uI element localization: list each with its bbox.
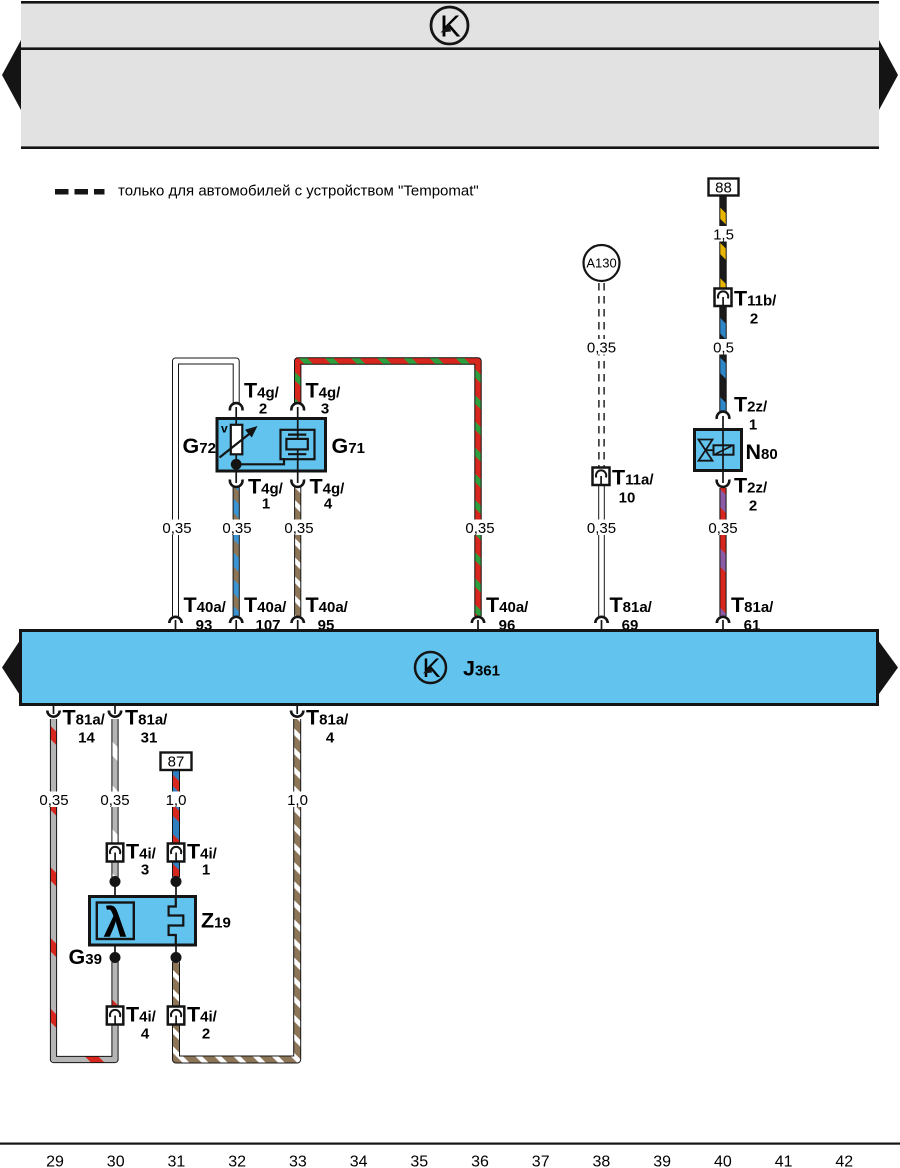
terminal T40a/95: [292, 617, 304, 623]
terminal T4g/4: [291, 480, 304, 487]
wire size label 1,0 track33: [283, 792, 311, 810]
svg-text:0,35: 0,35: [284, 520, 313, 537]
svg-text:41: 41: [775, 1154, 793, 1168]
svg-text:2: 2: [749, 498, 757, 515]
fuse box 88: [709, 179, 739, 197]
junction dot G72: [231, 459, 242, 470]
svg-text:T40a/: T40a/: [184, 593, 227, 617]
svg-text:34: 34: [350, 1154, 368, 1168]
svg-text:T2z/: T2z/: [734, 393, 768, 417]
wire brown/white T4g/4 to T40a/95: [294, 486, 301, 616]
terminal T81a/69: [595, 617, 607, 623]
svg-text:T4i/: T4i/: [187, 840, 218, 864]
svg-text:0,35: 0,35: [587, 340, 616, 357]
wire size label 0,35 track33: [281, 520, 317, 538]
terminal T2z/2: [717, 480, 730, 487]
label T4i/2: [187, 1003, 218, 1043]
svg-text:T4g/: T4g/: [244, 379, 280, 403]
terminal T2z/1: [717, 412, 730, 419]
svg-text:0,5: 0,5: [713, 340, 734, 357]
wire white loop T40a/93 to T4g/2: [176, 361, 237, 616]
svg-text:37: 37: [532, 1154, 550, 1168]
svg-text:T81a/: T81a/: [610, 593, 653, 617]
wire black/yellow 88 to T11b/2: [719, 196, 726, 290]
svg-text:4: 4: [141, 1026, 150, 1043]
label T81a/31: [125, 706, 168, 747]
wire G72 to G71 internal: [236, 458, 284, 464]
svg-text:T11a/: T11a/: [612, 466, 654, 490]
lambda symbol square: [97, 899, 134, 946]
lambda probe Z19 box: [90, 897, 196, 946]
svg-text:K: K: [440, 9, 461, 44]
svg-text:T81a/: T81a/: [63, 706, 106, 730]
svg-text:T4g/: T4g/: [306, 379, 342, 403]
svg-text:T81a/: T81a/: [306, 706, 349, 730]
svg-text:2: 2: [202, 1026, 210, 1043]
wire gray/white T81a/31 to T4i/3: [111, 719, 118, 877]
svg-text:K: K: [423, 653, 441, 683]
terminal T4g/2: [230, 403, 243, 410]
header K symbol: [431, 7, 468, 44]
svg-text:42: 42: [835, 1154, 853, 1168]
pin line into Z19 left: [114, 882, 116, 904]
connector T4i/4: [107, 1007, 124, 1025]
svg-text:Z19: Z19: [201, 909, 231, 933]
svg-text:1,0: 1,0: [166, 792, 187, 809]
connector T11b/2: [715, 289, 732, 307]
legend dashed-line symbol: [55, 189, 105, 195]
bus bar J361: [21, 631, 878, 705]
pin line into Z19 right: [175, 882, 177, 899]
bus right arrow: [878, 640, 899, 697]
wire size label 0,35 track40: [705, 520, 741, 538]
header right arrow: [879, 40, 898, 110]
label T40a/93: [184, 593, 227, 634]
wire size label 0,35 on A130 wire: [584, 339, 620, 357]
terminal T4g/1: [230, 480, 243, 487]
svg-text:1: 1: [262, 496, 270, 513]
label T40a/95: [306, 593, 349, 634]
svg-text:0,35: 0,35: [162, 520, 191, 537]
svg-text:3: 3: [321, 401, 329, 418]
svg-text:87: 87: [168, 754, 185, 771]
connector T4i/2: [168, 1007, 185, 1025]
svg-text:1,0: 1,0: [287, 792, 308, 809]
terminal T4g/3: [291, 403, 304, 410]
label T2z/2: [734, 474, 768, 515]
svg-text:0,35: 0,35: [708, 520, 737, 537]
svg-text:38: 38: [593, 1154, 611, 1168]
wire size label 0,35 track29: [36, 792, 72, 810]
header left arrow: [2, 40, 21, 110]
svg-text:G72: G72: [183, 434, 216, 458]
label T81a/4: [306, 706, 349, 747]
svg-text:4: 4: [324, 496, 333, 513]
label T40a/107: [244, 593, 287, 634]
label T4g/1: [248, 475, 284, 513]
svg-text:4: 4: [326, 730, 335, 747]
terminal T40a/96: [472, 617, 484, 623]
svg-text:G71: G71: [332, 434, 365, 458]
label T11a/10: [612, 466, 654, 507]
terminal T40a/93: [169, 617, 181, 623]
label T4g/4: [310, 475, 346, 513]
svg-text:N80: N80: [746, 440, 778, 464]
wire brown/white T81a/4 loop to T4i/2: [176, 719, 297, 1060]
wire size label 0,35 track36: [462, 520, 498, 538]
svg-text:v: v: [221, 422, 228, 436]
component A130 circle: [584, 245, 620, 281]
svg-text:T4i/: T4i/: [126, 1003, 157, 1027]
wire red/violet T2z/2 to T81a/61: [719, 488, 726, 616]
wire gray/red T81a/14 loop to T4i/4: [54, 719, 116, 1060]
svg-text:T81a/: T81a/: [125, 706, 168, 730]
svg-text:T40a/: T40a/: [244, 593, 287, 617]
svg-text:1: 1: [749, 417, 757, 434]
terminal T81a/31: [109, 711, 121, 717]
wire size label 0,35 track32: [219, 520, 255, 538]
svg-text:λ: λ: [104, 899, 127, 946]
sender G71 symbol: [281, 420, 315, 470]
svg-text:35: 35: [410, 1154, 428, 1168]
junction dot below Z19 right: [171, 952, 182, 963]
svg-text:A130: A130: [586, 256, 616, 271]
label T2z/1: [734, 393, 768, 434]
pin line below Z19 left: [114, 945, 116, 958]
svg-text:29: 29: [46, 1154, 64, 1168]
wire size label 0,35 track38: [584, 520, 620, 538]
svg-text:40: 40: [714, 1154, 732, 1168]
terminal T81a/61: [717, 617, 729, 623]
junction dot above Z19 right: [171, 876, 182, 887]
pin line below Z19 right: [175, 945, 177, 958]
svg-text:T2z/: T2z/: [734, 474, 768, 498]
wire blue/brown T4g/1 to T40a/107: [233, 486, 240, 616]
svg-text:3: 3: [141, 862, 149, 879]
svg-text:T4i/: T4i/: [126, 840, 157, 864]
wire size label 0,5: [709, 339, 738, 357]
svg-text:T81a/: T81a/: [731, 593, 774, 617]
heater meander Z19: [169, 897, 184, 945]
label T4g/2: [244, 379, 280, 418]
label T4i/3: [126, 840, 157, 879]
junction dot above Z19 left: [110, 876, 121, 887]
connector T4i/1: [168, 844, 185, 862]
svg-text:T4i/: T4i/: [187, 1003, 218, 1027]
svg-text:31: 31: [141, 730, 158, 747]
wire dashed white below A130: [599, 283, 604, 467]
svg-text:G39: G39: [69, 945, 102, 969]
valve N80: [695, 430, 742, 471]
label T11b/2: [734, 287, 777, 328]
svg-text:0,35: 0,35: [39, 792, 68, 809]
sender G72 symbol: [220, 420, 258, 464]
svg-text:2: 2: [750, 311, 758, 328]
svg-text:0,35: 0,35: [465, 520, 494, 537]
svg-text:14: 14: [78, 730, 95, 747]
svg-text:0,35: 0,35: [100, 792, 129, 809]
wire size label 0,35 track30: [97, 792, 133, 810]
svg-text:36: 36: [471, 1154, 489, 1168]
sensor box G72 G71: [217, 419, 326, 472]
wire size label 0,35 white loop: [159, 520, 195, 538]
label T4i/1: [187, 840, 218, 879]
terminal T81a/4: [291, 711, 303, 717]
svg-text:0,35: 0,35: [587, 520, 616, 537]
label T4g/3: [306, 379, 342, 418]
label T81a/69: [610, 593, 653, 634]
label T81a/14: [63, 706, 106, 747]
bus K symbol: [415, 652, 446, 683]
svg-text:10: 10: [619, 490, 636, 507]
bottom scale numbers: [46, 1154, 853, 1168]
wire size label 1,5: [709, 226, 738, 244]
wire blue/red 87 to T4i/1: [172, 771, 180, 878]
svg-text:33: 33: [289, 1154, 307, 1168]
label T4i/4: [126, 1003, 157, 1043]
svg-text:0,35: 0,35: [222, 520, 251, 537]
bus left arrow: [2, 640, 21, 697]
terminal T40a/107: [230, 617, 242, 623]
junction dot below Z19 left: [110, 952, 121, 963]
wire red/green T4g/3 to T40a/96: [298, 361, 478, 616]
connector T4i/3: [107, 844, 124, 862]
svg-text:88: 88: [715, 180, 732, 197]
header band background: [21, 1, 879, 149]
bottom scale line: [0, 1143, 900, 1145]
wire black/blue T11b/2 to T2z/1: [719, 306, 726, 412]
fuse box 87: [161, 753, 192, 771]
wire white T11a/10 to T81a/69: [598, 486, 605, 617]
terminal T81a/14: [47, 711, 59, 717]
svg-text:30: 30: [107, 1154, 125, 1168]
svg-text:39: 39: [653, 1154, 671, 1168]
svg-text:только для автомобилей с устро: только для автомобилей с устройством "Te…: [118, 183, 479, 200]
svg-text:31: 31: [168, 1154, 186, 1168]
svg-text:2: 2: [259, 401, 267, 418]
label T40a/96: [486, 593, 529, 634]
svg-text:1,5: 1,5: [713, 227, 734, 244]
svg-text:T40a/: T40a/: [306, 593, 349, 617]
svg-text:32: 32: [228, 1154, 246, 1168]
connector T11a/10: [593, 468, 610, 486]
wire size label 1,0 track31: [162, 792, 190, 810]
svg-text:1: 1: [202, 862, 210, 879]
label T81a/61: [731, 593, 774, 634]
svg-text:T40a/: T40a/: [486, 593, 529, 617]
svg-text:T11b/: T11b/: [734, 287, 777, 311]
